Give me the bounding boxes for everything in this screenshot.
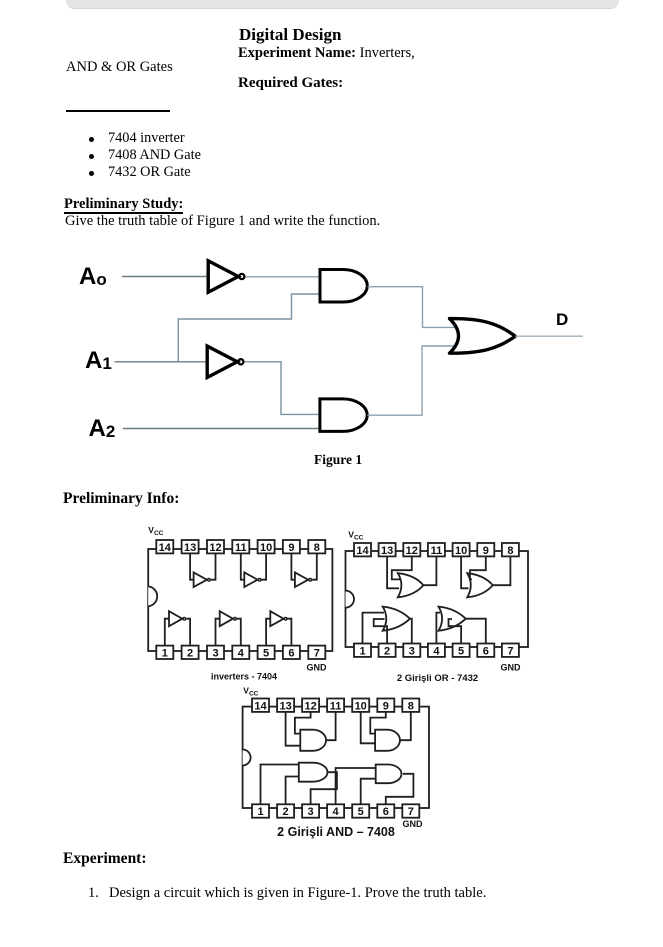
svg-text:6: 6 — [288, 647, 294, 659]
svg-text:3: 3 — [409, 645, 415, 657]
IC U2 7432 bottom pin boxes 1-7 — [354, 644, 519, 657]
inverter U1 cell top2 (pins 11->10) — [241, 553, 266, 587]
svg-text:1: 1 — [359, 645, 365, 657]
svg-text:14: 14 — [254, 700, 267, 712]
svg-text:7: 7 — [408, 806, 414, 818]
inverter U1 cell bottom3 (pins 5->6) — [266, 611, 291, 645]
inverter U1 cell bottom1 (pins 1->2) — [165, 611, 190, 645]
svg-text:14: 14 — [159, 542, 172, 554]
pin numbers U3 bottom 1-7 — [257, 806, 413, 818]
svg-text:13: 13 — [381, 545, 393, 557]
AND gate U3 cell bottom2 (pins 4,5->6) — [336, 765, 414, 805]
svg-text:GND: GND — [501, 663, 522, 673]
svg-text:3: 3 — [308, 806, 314, 818]
AND gate U3 cell top2 (pins 10,9->8) — [361, 712, 411, 751]
IC U2 7432 top pin boxes 14-8 — [354, 543, 519, 556]
IC U2 7432 body — [346, 551, 529, 647]
inverter U1 cell top1 (pins 13->12) — [190, 553, 215, 587]
title: Digital Design — [239, 26, 341, 43]
inverter INV2 — [207, 346, 243, 377]
svg-text:6: 6 — [483, 645, 489, 657]
svg-text:5: 5 — [263, 647, 269, 659]
bullet list — [89, 137, 94, 142]
IC U1 7404 notch — [148, 586, 157, 606]
svg-text:7: 7 — [507, 645, 513, 657]
AND gate AND1 — [320, 270, 367, 303]
pin numbers U2 top 14-8 — [356, 545, 513, 557]
AND gate U3 cell bottom1 (pins 1,2->3) — [261, 763, 337, 805]
svg-text:9: 9 — [483, 545, 489, 557]
svg-text:A1: A1 — [85, 347, 112, 374]
svg-text:2 Girişli AND – 7408: 2 Girişli AND – 7408 — [277, 825, 395, 839]
IC U1 7404 body — [148, 549, 332, 651]
inverter INV1 — [208, 261, 244, 292]
Figure 1 caption — [314, 453, 362, 467]
svg-text:D: D — [556, 310, 568, 329]
item 1 — [88, 886, 99, 901]
top page-edge shadow bar — [66, 0, 619, 9]
Experiment heading — [63, 851, 147, 867]
Preliminary Study heading — [64, 197, 183, 214]
svg-text:11: 11 — [235, 542, 247, 554]
svg-text:4: 4 — [238, 647, 245, 659]
svg-text:10: 10 — [355, 700, 367, 712]
wire INV2 to AND2 upper input — [244, 362, 318, 415]
svg-text:10: 10 — [260, 542, 272, 554]
svg-text:11: 11 — [330, 700, 342, 712]
OR gate U2 cell top2 (pins 10,9->8) — [461, 556, 510, 597]
svg-text:12: 12 — [304, 700, 316, 712]
Required Gates: — [238, 76, 343, 91]
svg-text:7: 7 — [314, 647, 320, 659]
inverter U1 cell top3 (pins 9->8) — [291, 553, 316, 587]
svg-text:4: 4 — [433, 645, 440, 657]
IC U1 7404 top pin boxes 14-8 — [156, 540, 325, 553]
svg-text:2: 2 — [187, 647, 193, 659]
OR gate U2 cell bottom2 (pins 4,5->6) — [436, 607, 485, 644]
svg-text:1: 1 — [257, 806, 263, 818]
AND gate AND2 — [320, 399, 367, 432]
svg-text:4: 4 — [333, 806, 340, 818]
svg-text:8: 8 — [507, 545, 513, 557]
svg-text:12: 12 — [406, 545, 418, 557]
svg-text:inverters - 7404: inverters - 7404 — [211, 672, 277, 682]
horizontal rule under left cell — [66, 110, 170, 112]
inverter U1 cell bottom2 (pins 3->4) — [216, 611, 241, 645]
svg-text:14: 14 — [356, 545, 369, 557]
svg-text:10: 10 — [455, 545, 467, 557]
svg-text:5: 5 — [358, 806, 364, 818]
pin numbers U2 bottom 1-7 — [359, 645, 513, 657]
OR gate U2 cell top1 (pins 13,12->11) — [387, 556, 436, 597]
svg-text:2: 2 — [283, 806, 289, 818]
wire AND1 output to OR top input — [368, 287, 458, 328]
AND gate U3 cell top1 (pins 13,12->11) — [286, 712, 336, 751]
pin numbers U1 top 14-8 — [159, 542, 320, 554]
svg-text:3: 3 — [212, 647, 218, 659]
wire INV1 to AND1 — [245, 276, 318, 278]
svg-text:VCC: VCC — [243, 686, 258, 698]
svg-text:VCC: VCC — [148, 525, 163, 537]
AND & OR Gates — [66, 60, 173, 75]
svg-text:8: 8 — [314, 542, 320, 554]
IC U2 7432 notch — [346, 591, 355, 608]
Preliminary Info heading — [63, 491, 179, 507]
svg-text:12: 12 — [209, 542, 221, 554]
svg-text:2 Girişli OR - 7432: 2 Girişli OR - 7432 — [397, 673, 478, 684]
svg-text:8: 8 — [408, 700, 414, 712]
svg-text:GND: GND — [307, 663, 328, 673]
svg-text:9: 9 — [383, 700, 389, 712]
svg-text:11: 11 — [431, 545, 443, 557]
IC U1 7404 bottom pin boxes 1-7 — [156, 646, 325, 659]
svg-text:GND: GND — [403, 819, 424, 829]
IC U3 7408 notch — [243, 750, 251, 766]
wire branch from A1 to AND1 lower input — [178, 294, 318, 362]
svg-text:Ao: Ao — [79, 263, 107, 290]
IC U3 7408 top pin boxes 14-8 — [252, 699, 419, 712]
svg-text:1: 1 — [162, 647, 168, 659]
OR gate U2 cell bottom1 (pins 1,2->3) — [363, 607, 412, 644]
svg-text:A2: A2 — [89, 415, 116, 442]
wire AND2 output to OR bottom input — [367, 346, 457, 415]
OR gate OR1 — [450, 319, 516, 354]
Experiment Name line — [238, 46, 415, 61]
IC U3 7408 body — [243, 707, 429, 808]
svg-text:9: 9 — [288, 542, 294, 554]
svg-text:VCC: VCC — [348, 530, 363, 542]
pin numbers U1 bottom 1-7 — [162, 647, 320, 659]
wire A0 to INV1 — [122, 276, 207, 278]
svg-text:13: 13 — [184, 542, 196, 554]
svg-text:13: 13 — [279, 700, 291, 712]
pin numbers U3 top 14-8 — [254, 700, 413, 712]
wire A1 to INV2 — [114, 361, 206, 363]
svg-text:6: 6 — [383, 806, 389, 818]
svg-text:2: 2 — [384, 645, 390, 657]
IC U3 7408 bottom pin boxes 1-7 — [252, 804, 419, 817]
svg-text:5: 5 — [458, 645, 464, 657]
wire OR output D — [515, 335, 583, 337]
wire A2 to AND2 lower input — [123, 428, 319, 430]
